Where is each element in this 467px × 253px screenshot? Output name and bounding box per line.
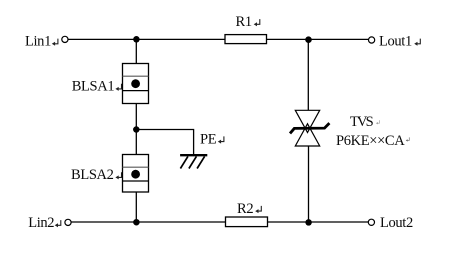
wire: TVS to bottom rail [308,146,310,222]
terminal Lout2 [368,219,374,225]
return mark after Lout1 [414,39,420,46]
svg-text:Lin2: Lin2 [28,215,54,231]
svg-text:R2: R2 [237,201,253,217]
wire: top junction down to TVS [307,40,309,111]
svg-text:R1: R1 [236,14,252,30]
wire: Lin2 terminal to R2 [71,221,225,223]
svg-text:P6KE××CA: P6KE××CA [336,133,405,149]
node: top-right junction [305,36,312,43]
wire: R1 to Lout1 terminal [267,38,369,40]
surge arrester BLSA2 [123,155,149,193]
terminal Lout1 [369,37,375,43]
terminal Lin1 [62,36,68,42]
resistor R1 [225,35,267,44]
svg-text:Lin1: Lin1 [25,34,51,50]
wire: BLSA1 to BLSA2 [135,104,137,155]
wire: top junction down to BLSA1 [135,40,137,64]
wire: PE branch [136,130,193,156]
svg-text:BLSA2: BLSA2 [71,167,114,183]
return mark after P6KE××CA [406,137,410,141]
return mark after Lin2 [55,220,61,227]
wire: R2 to Lout2 terminal [268,221,369,223]
svg-text:Lout2: Lout2 [380,215,413,231]
svg-text:TVS: TVS [350,114,374,130]
svg-text:BLSA1: BLSA1 [72,79,115,95]
return mark after R2 [255,206,261,213]
TVS diode D1 (bidirectional) [290,110,329,146]
wire: Lin1 terminal to R1 [68,38,225,40]
svg-text:Lout1: Lout1 [379,34,412,50]
terminal Lin2 [65,219,71,225]
resistor R2 [226,217,268,227]
node: bottom-left junction [133,219,140,226]
return mark after PE [218,136,224,143]
node: bottom-right junction [305,219,312,226]
return mark after TVS [376,120,380,124]
ground PE [180,155,207,168]
return mark after BLSA1 [115,84,121,91]
return mark after Lin1 [52,39,58,46]
return mark after BLSA2 [115,172,121,179]
return mark after R1 [254,19,260,26]
svg-text:PE: PE [200,131,217,147]
surge arrester BLSA1 [123,64,149,104]
wire: BLSA2 to bottom rail [135,192,137,222]
node: top-left junction [133,36,140,43]
node: PE junction [133,126,140,133]
